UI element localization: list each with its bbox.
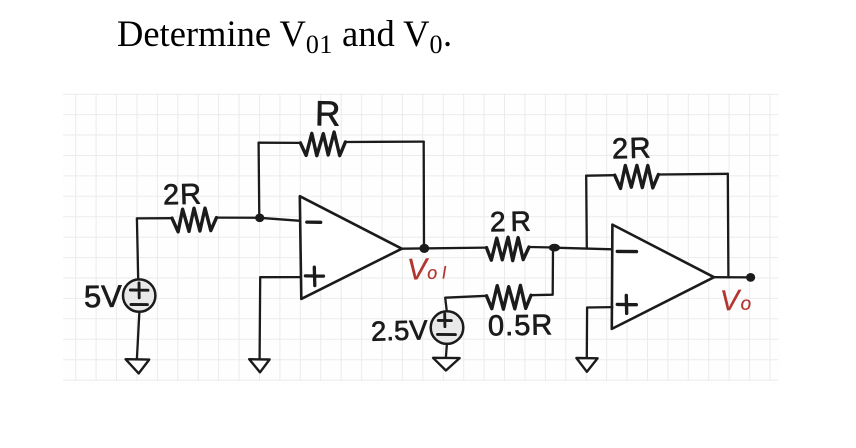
- resistor R1 (2R input): [172, 208, 217, 232]
- wire: node B down for 0.5R branch: [531, 248, 553, 295]
- pin plus V1: [130, 283, 148, 298]
- pin minus U1: [307, 220, 321, 223]
- pin plus V2: [438, 314, 451, 327]
- wire: 5V source to 2R input resistor (vertical riser): [137, 218, 138, 279]
- wire: input net from riser to resistor 2R: [137, 217, 172, 219]
- ground: below V1: [126, 359, 150, 373]
- node A junction dot: [255, 214, 264, 223]
- wire: feedback right riser down to output of U2: [727, 174, 730, 277]
- svg-text:0.5R: 0.5R: [488, 309, 554, 342]
- resistor R4 (0.5R): [487, 285, 532, 309]
- op-amp U1: [300, 196, 402, 299]
- resistor R3 (2R between stages): [487, 237, 530, 260]
- pin minus V2: [438, 333, 456, 336]
- ground: below V2: [433, 358, 460, 371]
- node V01 output junction dot: [419, 244, 429, 253]
- svg-text:2.5V: 2.5V: [371, 314, 429, 346]
- ground: U1 non-inverting input: [249, 359, 269, 372]
- svg-text:2R: 2R: [612, 132, 653, 165]
- graph paper: [64, 94, 782, 385]
- svg-text:2R: 2R: [163, 179, 203, 212]
- svg-text:2R: 2R: [490, 206, 536, 238]
- wire: 0.5R to 2.5V source top: [445, 296, 486, 311]
- voltage source V1 5V: [123, 279, 155, 311]
- node Vo output dot: [746, 273, 755, 282]
- wire: node A to op-amp U1 inverting input: [260, 218, 301, 221]
- wire: V2 bottom to ground: [446, 344, 447, 357]
- wire: feedback top right segment: [345, 140, 423, 143]
- op-amp U2: [612, 225, 714, 329]
- wire: U2 non-inverting input to ground drop: [587, 307, 613, 357]
- svg-text:5V: 5V: [84, 279, 123, 315]
- voltage source V2 2.5V: [431, 311, 464, 344]
- wire: resistor 2R to inverting node A: [217, 216, 260, 218]
- pin minus U2: [617, 250, 636, 254]
- wire: node A up to feedback R (left riser): [257, 143, 260, 218]
- wire: feedback top left segment: [259, 142, 301, 144]
- wire: resistor 2R to node B: [529, 246, 554, 249]
- wire: U1 non-inverting input to ground drop: [260, 277, 300, 359]
- wire: feedback top left segment U2: [586, 174, 615, 177]
- resistor R5 (2R feedback of U2): [615, 165, 659, 188]
- wire: U2 output to node Vo: [714, 276, 751, 278]
- wire: V1 bottom to ground: [137, 312, 140, 359]
- pin plus U2: [617, 295, 636, 313]
- ground: U2 non-inverting input: [576, 358, 597, 372]
- wire: feedback right riser down to output node V01: [423, 142, 426, 249]
- wire: U1 output to node V01 and on to resistor 2R: [402, 248, 487, 249]
- pin plus U1: [305, 267, 323, 285]
- wire: feedback top right segment U2: [658, 173, 727, 176]
- node B junction dot: [549, 244, 560, 252]
- wire: node B to U2 inverting input: [554, 248, 612, 250]
- resistor R2 (R feedback of U1): [300, 132, 345, 156]
- wire: feedback riser of U2 (down to inverting net): [585, 176, 588, 249]
- pin minus V1: [131, 303, 147, 306]
- svg-text:R: R: [315, 94, 341, 133]
